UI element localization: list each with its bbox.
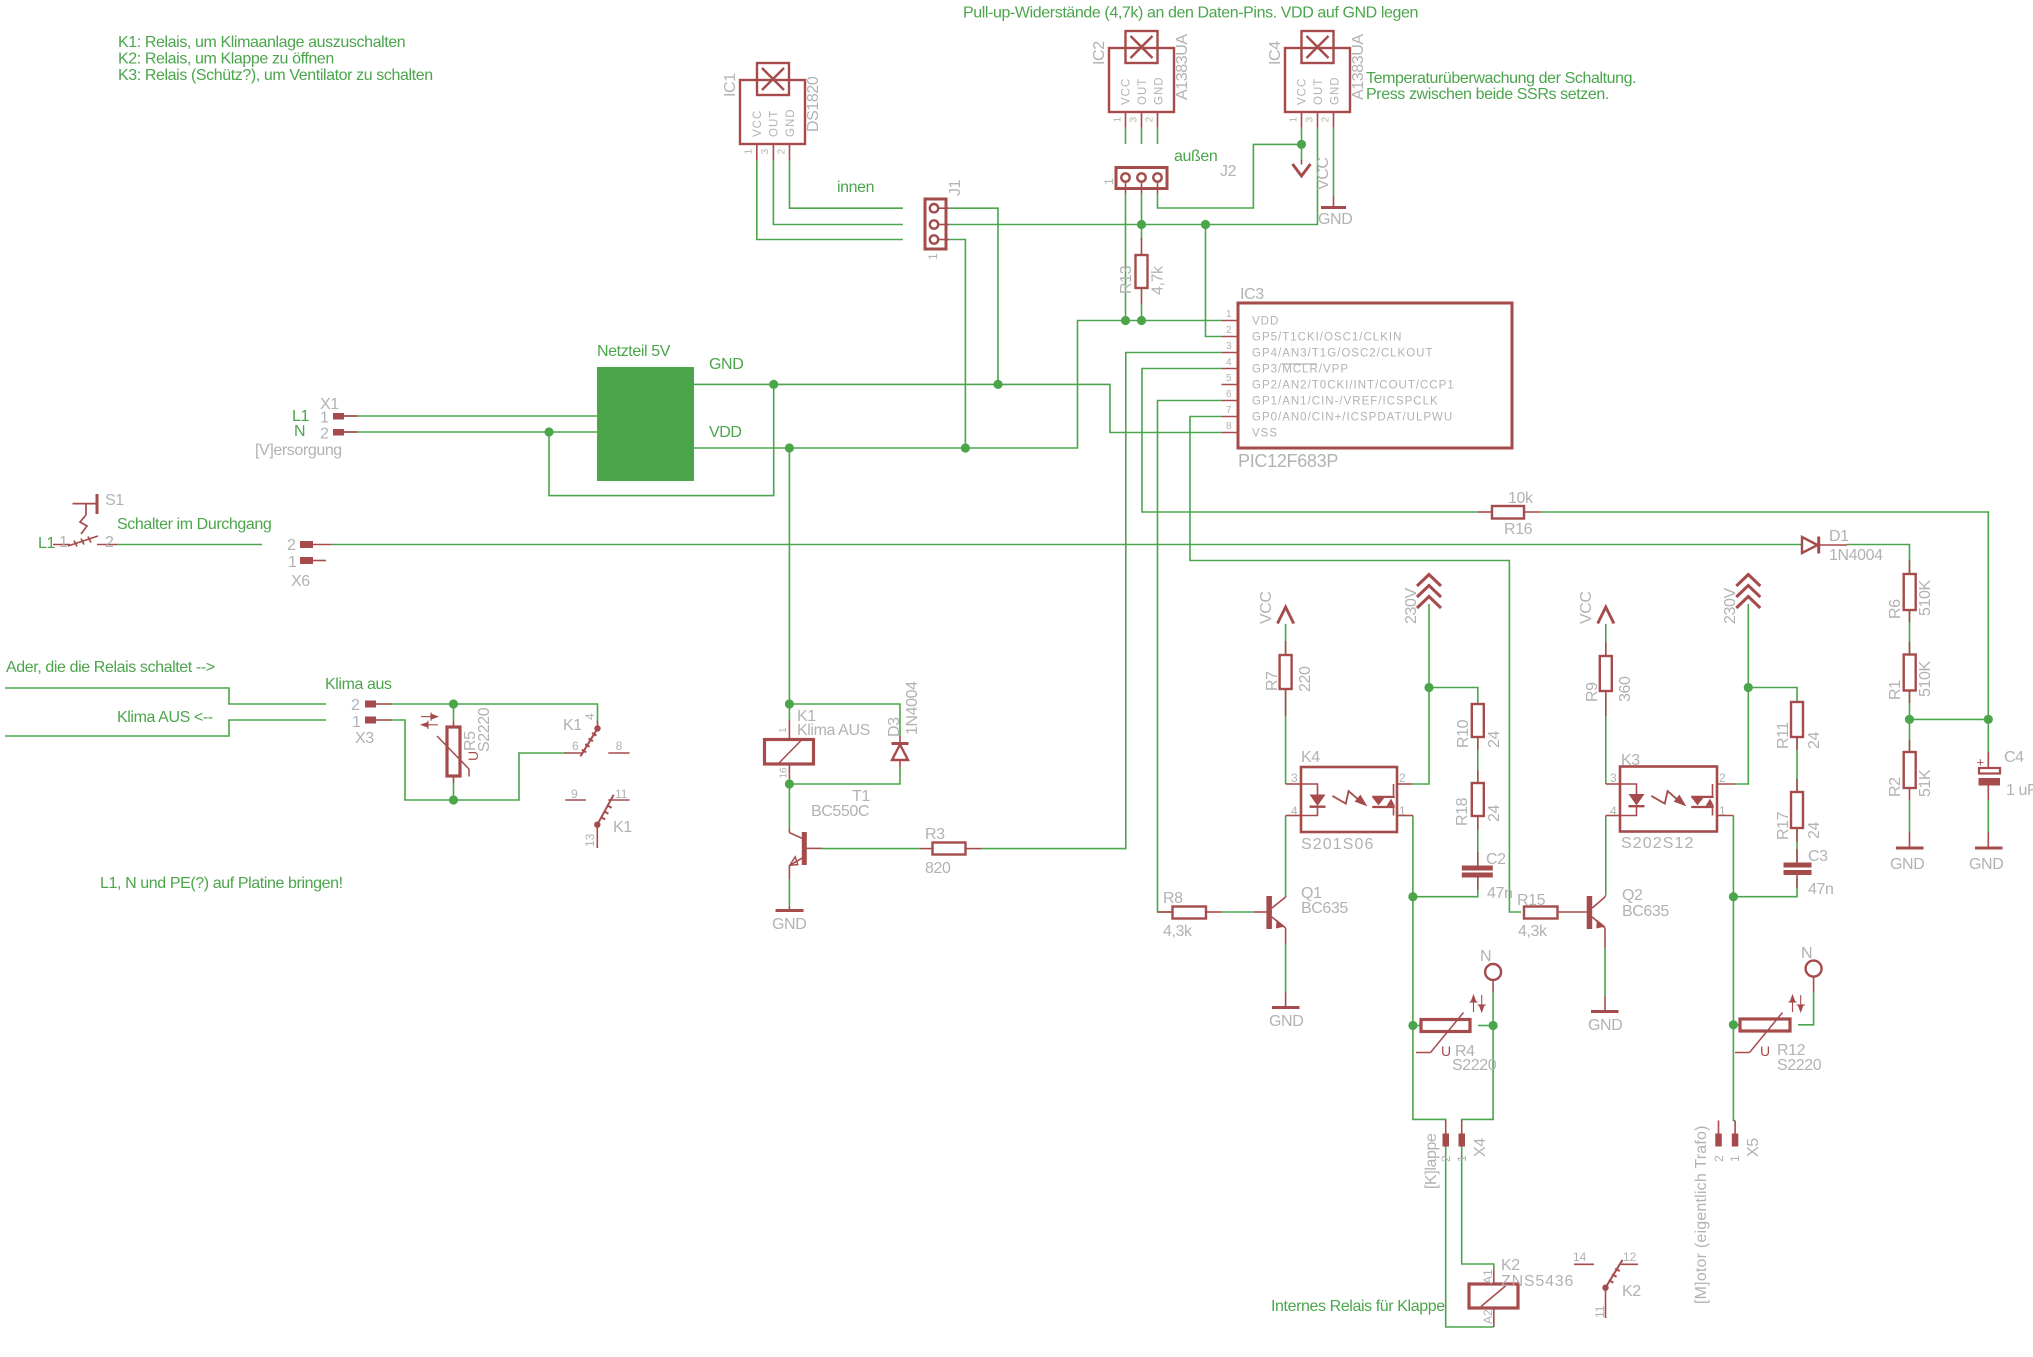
svg-text:VSS: VSS xyxy=(1252,428,1278,440)
varistor R4 S2220 xyxy=(1416,995,1497,1074)
wire 230V junction to R10 xyxy=(1429,688,1478,705)
svg-text:1: 1 xyxy=(1226,309,1232,320)
svg-text:R1: R1 xyxy=(1887,680,1904,700)
svg-text:8: 8 xyxy=(616,739,623,753)
svg-text:D1: D1 xyxy=(1829,528,1849,545)
ground symbol at C4 xyxy=(1969,832,2003,873)
svg-text:VDD: VDD xyxy=(1252,316,1279,328)
text label VDD output xyxy=(709,424,742,441)
text label GND output xyxy=(709,356,743,373)
svg-text:OUT: OUT xyxy=(1137,78,1149,105)
junction DATA row at GP5 xyxy=(1201,220,1210,229)
junction N at X1 xyxy=(544,427,553,436)
svg-text:3: 3 xyxy=(760,149,771,155)
svg-text:2: 2 xyxy=(105,534,114,551)
text pin 1 at S1 xyxy=(59,534,68,551)
svg-text:GND: GND xyxy=(1969,856,2003,873)
wire divider junction row xyxy=(1910,718,1989,720)
svg-text:2: 2 xyxy=(777,149,788,155)
svg-text:3: 3 xyxy=(1291,771,1298,785)
diode D3 1N4004 xyxy=(886,681,921,767)
resistor R16 10k xyxy=(1478,490,1541,538)
wire K4 pin1 down to X4 pin2 xyxy=(1413,816,1446,1122)
wire IC1 VCC pin1 to J1 bottom xyxy=(757,161,903,240)
text note temperature monitoring xyxy=(1366,70,1636,103)
svg-text:7: 7 xyxy=(1226,405,1232,416)
wire R4 junction down to X4 pin1 xyxy=(1462,1026,1493,1122)
svg-text:6: 6 xyxy=(1226,389,1232,400)
svg-text:2: 2 xyxy=(287,537,296,554)
sensor IC1 DS1820 xyxy=(722,63,822,161)
svg-text:VCC: VCC xyxy=(1315,157,1332,190)
wire C3 bottom to K3 pin1 net xyxy=(1733,878,1797,897)
svg-text:R8: R8 xyxy=(1163,890,1183,907)
wire R5 bottom lead xyxy=(453,783,455,800)
wire IC4 pin2 to GND symbol xyxy=(1333,128,1335,197)
svg-text:1: 1 xyxy=(1399,804,1406,818)
svg-text:360: 360 xyxy=(1617,676,1634,702)
wire R7 to K4 pin3 xyxy=(1285,690,1287,784)
wire R10 to R18 xyxy=(1477,737,1479,783)
text note Ader die die Relais schaltet xyxy=(6,659,215,676)
svg-text:GND: GND xyxy=(709,356,743,373)
svg-text:1: 1 xyxy=(1455,1155,1469,1162)
svg-text:ZNS5436: ZNS5436 xyxy=(1501,1273,1574,1290)
wire Ader bus lower xyxy=(5,720,326,736)
resistor R10 24 xyxy=(1455,704,1503,750)
wire IC2 pin1 stub xyxy=(1125,128,1127,145)
junction GND at J1 xyxy=(993,380,1002,389)
ground symbol at R2 xyxy=(1890,832,1924,873)
wire 230V arrow to K3 pin2 xyxy=(1735,604,1748,784)
svg-text:47n: 47n xyxy=(1487,885,1513,902)
svg-text:K2: K2 xyxy=(1622,1283,1641,1300)
wire IC1 OUT pin3 to J1 middle xyxy=(773,161,903,225)
svg-text:VDD: VDD xyxy=(709,424,742,441)
wire X3 pin1 to K1 contact pin6 xyxy=(392,720,566,800)
svg-text:N: N xyxy=(294,423,305,440)
text note pull-up resistors xyxy=(963,5,1418,22)
svg-text:Internes Relais für Klappe: Internes Relais für Klappe xyxy=(1271,1298,1445,1315)
svg-text:K3: K3 xyxy=(1621,752,1640,769)
diode D1 1N4004 xyxy=(1802,528,1883,564)
connector X1 xyxy=(255,396,357,459)
resistor R6 510K xyxy=(1887,560,1934,622)
junction divider at R2 xyxy=(1905,715,1914,724)
svg-text:[M]otor (eigentlich Trafo): [M]otor (eigentlich Trafo) xyxy=(1693,1125,1710,1304)
svg-text:GP3/MCLR/VPP: GP3/MCLR/VPP xyxy=(1252,364,1349,376)
svg-text:GND: GND xyxy=(772,916,806,933)
svg-text:24: 24 xyxy=(1486,731,1503,748)
text label Klima aus xyxy=(325,676,392,693)
junction 230V at R11 xyxy=(1744,683,1753,692)
svg-text:R11: R11 xyxy=(1775,722,1792,749)
svg-text:1 uF: 1 uF xyxy=(2006,782,2033,799)
wire J2 pin1 to VDD row xyxy=(1125,194,1127,321)
svg-text:3: 3 xyxy=(1304,117,1315,123)
svg-text:47n: 47n xyxy=(1808,881,1834,898)
svg-text:X5: X5 xyxy=(1745,1138,1762,1157)
resistor R8 4.3k xyxy=(1158,890,1222,940)
junction K4 pin1 at C2 xyxy=(1408,892,1417,901)
svg-text:[V]ersorgung: [V]ersorgung xyxy=(255,442,342,459)
svg-text:820: 820 xyxy=(925,860,951,877)
svg-text:R10: R10 xyxy=(1455,719,1472,748)
wire Q1 emitter to GND xyxy=(1285,944,1287,992)
wire R16 right to divider junction xyxy=(1541,512,1989,719)
svg-text:J2: J2 xyxy=(1220,163,1237,180)
wire VCC arrow to R9 xyxy=(1605,624,1607,656)
svg-text:2: 2 xyxy=(1320,117,1331,123)
svg-text:S2220: S2220 xyxy=(1777,1057,1822,1074)
connector X4 xyxy=(1423,1120,1489,1189)
svg-text:R17: R17 xyxy=(1775,811,1792,840)
wire IC2 pin3 stub xyxy=(1141,128,1143,145)
svg-text:A1: A1 xyxy=(1481,1269,1495,1284)
wire PIC pin6 GP1 to R8 xyxy=(1158,401,1222,913)
svg-text:2: 2 xyxy=(320,426,329,443)
wire PIC pin4 GP3 to R16 xyxy=(1142,369,1478,513)
connector X6 xyxy=(287,537,331,590)
resistor R2 51K xyxy=(1887,740,1934,800)
svg-text:8: 8 xyxy=(1226,421,1232,432)
svg-text:C2: C2 xyxy=(1486,851,1506,868)
vcc arrow at R7 xyxy=(1258,591,1294,624)
wire junction to R2 xyxy=(1909,719,1911,752)
svg-text:Q2: Q2 xyxy=(1622,887,1643,904)
wire PIC pin3 GP4 to R3 xyxy=(981,353,1222,849)
wire X4 pin1 to K2 coil A1 xyxy=(1462,1146,1494,1270)
svg-text:GND: GND xyxy=(1269,1013,1303,1030)
resistor R11 24 xyxy=(1775,702,1823,750)
capacitor C3 47n xyxy=(1784,848,1834,898)
svg-text:12: 12 xyxy=(1623,1250,1637,1264)
resistor R9 360 xyxy=(1584,642,1634,716)
ground symbol at Q2 xyxy=(1588,996,1622,1034)
svg-text:1: 1 xyxy=(926,253,940,260)
wire Ader bus upper xyxy=(5,688,326,704)
svg-text:1N4004: 1N4004 xyxy=(1829,547,1883,564)
svg-text:2: 2 xyxy=(1712,1155,1726,1162)
wire R4 right junction to N xyxy=(1492,992,1494,1026)
wire D3 bottom to K1 coil pin16 row xyxy=(789,767,900,784)
svg-text:16: 16 xyxy=(779,767,790,779)
wire R18 to C2 xyxy=(1477,816,1479,866)
svg-text:24: 24 xyxy=(1486,805,1503,822)
transistor Q1 BC635 xyxy=(1254,885,1348,944)
wire GND row from Netzteil to PIC VSS xyxy=(694,384,1222,432)
wire T1 base to R3 xyxy=(822,848,920,850)
connector X3 xyxy=(351,697,392,747)
svg-text:+: + xyxy=(1977,755,1985,770)
wire X1 pin2 N to Netzteil xyxy=(344,431,597,433)
svg-text:IC3: IC3 xyxy=(1240,286,1264,303)
wire R11 to R17 xyxy=(1796,737,1798,792)
svg-text:VCC: VCC xyxy=(1578,591,1595,624)
resistor R7 220 xyxy=(1264,641,1314,716)
wire R12 left lead xyxy=(1733,1024,1740,1026)
svg-text:9: 9 xyxy=(571,787,578,801)
svg-text:1: 1 xyxy=(352,714,361,731)
text note Internes Relais fuer Klappe xyxy=(1271,1298,1445,1315)
svg-text:R7: R7 xyxy=(1264,671,1281,691)
ground symbol at IC4 xyxy=(1318,196,1352,228)
wire K3 pin1 down to X5 pin1 xyxy=(1733,816,1735,1121)
wire junction to C4 xyxy=(1987,719,1989,764)
supply symbol N right xyxy=(1801,945,1822,992)
vcc arrow at R9 xyxy=(1578,591,1614,624)
svg-text:1: 1 xyxy=(288,554,297,571)
wire R1 to junction xyxy=(1909,691,1911,719)
wire X4 pin2 to K2 coil A2 xyxy=(1446,1146,1494,1327)
svg-text:GND: GND xyxy=(1330,76,1342,105)
svg-text:S2220: S2220 xyxy=(1452,1057,1497,1074)
svg-text:4: 4 xyxy=(583,713,597,720)
junction VDD row at J2 pin1 xyxy=(1121,316,1130,325)
svg-text:4: 4 xyxy=(1610,804,1617,818)
svg-text:Klima AUS: Klima AUS xyxy=(797,722,870,739)
svg-text:N: N xyxy=(1480,948,1491,965)
svg-text:13: 13 xyxy=(583,833,597,847)
svg-text:K1: K1 xyxy=(613,819,632,836)
svg-text:VCC: VCC xyxy=(1258,591,1275,624)
junction VDD row at R13 xyxy=(1137,316,1146,325)
vcc arrow at IC4 xyxy=(1293,157,1333,190)
svg-text:1: 1 xyxy=(744,149,755,155)
junction divider at C4 xyxy=(1984,715,1993,724)
svg-text:D3: D3 xyxy=(886,717,903,737)
svg-text:1N4004: 1N4004 xyxy=(904,681,921,735)
svg-text:PIC12F683P: PIC12F683P xyxy=(1238,451,1338,471)
svg-text:14: 14 xyxy=(1573,1250,1587,1264)
resistor R1 510K xyxy=(1887,642,1934,703)
svg-text:2: 2 xyxy=(1399,771,1406,785)
text label N at X1 xyxy=(294,423,305,440)
svg-text:IC2: IC2 xyxy=(1091,41,1108,65)
wire X1 pin1 L1 to Netzteil xyxy=(344,415,597,417)
wire R6 to R1 xyxy=(1909,610,1911,655)
junction IC4 VCC xyxy=(1297,140,1306,149)
junction DATA row at J2 pin3 xyxy=(1137,220,1146,229)
svg-text:R13: R13 xyxy=(1118,265,1135,294)
svg-text:11: 11 xyxy=(615,787,628,801)
optocoupler K3 S202S12 xyxy=(1606,752,1735,852)
svg-text:GP0/AN0/CIN+/ICSPDAT/ULPWU: GP0/AN0/CIN+/ICSPDAT/ULPWU xyxy=(1252,412,1453,424)
varistor R5 S2220 xyxy=(421,707,493,783)
junction R5 bottom xyxy=(449,795,458,804)
svg-text:3: 3 xyxy=(1128,117,1139,123)
relay coil K2 ZNS5436 xyxy=(1469,1257,1574,1327)
resistor R18 24 xyxy=(1454,770,1503,830)
wire PIC pin7 GP0 to R15 xyxy=(1190,417,1521,913)
ground symbol at Q1 xyxy=(1269,992,1303,1030)
svg-text:IC1: IC1 xyxy=(722,73,739,97)
svg-text:[K]lappe: [K]lappe xyxy=(1423,1133,1440,1189)
svg-text:4,7k: 4,7k xyxy=(1150,265,1167,295)
svg-text:BC635: BC635 xyxy=(1622,903,1669,920)
svg-text:S201S06: S201S06 xyxy=(1301,836,1375,853)
text note Klima AUS arrow xyxy=(117,709,213,726)
wire T1 emitter to GND xyxy=(788,879,790,906)
junction 230V at R10 xyxy=(1424,683,1433,692)
svg-text:1: 1 xyxy=(1288,117,1299,123)
svg-text:Pull-up-Widerstände (4,7k) an: Pull-up-Widerstände (4,7k) an den Daten-… xyxy=(963,5,1418,22)
text note L1 N und PE auf Platine bringen xyxy=(100,875,343,892)
svg-text:2: 2 xyxy=(1719,771,1726,785)
svg-text:A1383UA: A1383UA xyxy=(1174,34,1191,100)
wire K1 coil pin1 junction to D3 top xyxy=(789,704,900,736)
wire C4 to GND xyxy=(1987,800,1989,832)
svg-text:S1: S1 xyxy=(105,492,124,509)
wire 230V junction to R11 xyxy=(1748,688,1797,703)
wire IC4 pin1 to VCC arrow xyxy=(1301,128,1303,162)
svg-text:Schalter im Durchgang: Schalter im Durchgang xyxy=(117,516,271,533)
svg-text:L1: L1 xyxy=(38,535,55,552)
svg-text:GND: GND xyxy=(1588,1017,1622,1034)
sensor IC4 A1383UA xyxy=(1267,31,1367,128)
wire D1 cathode to R6 xyxy=(1847,545,1910,575)
svg-text:C3: C3 xyxy=(1808,848,1828,865)
junction R12 left xyxy=(1729,1020,1738,1029)
wire IC1 GND pin2 to J1 top xyxy=(790,161,903,209)
svg-text:Klima AUS <--: Klima AUS <-- xyxy=(117,709,213,726)
text label innen xyxy=(837,179,874,196)
svg-text:X6: X6 xyxy=(291,573,310,590)
svg-text:OUT: OUT xyxy=(769,110,781,137)
svg-text:Klima aus: Klima aus xyxy=(325,676,392,693)
junction R5 top xyxy=(449,699,458,708)
wire J1 top to GND row xyxy=(949,208,998,384)
svg-text:2: 2 xyxy=(1226,325,1232,336)
svg-text:R18: R18 xyxy=(1454,797,1471,826)
wire R9 to K3 pin3 xyxy=(1605,691,1607,784)
text label L1 at X1 xyxy=(292,408,309,425)
svg-text:J1: J1 xyxy=(947,179,964,196)
power supply Netzteil 5V xyxy=(597,367,694,481)
svg-text:Ader, die die Relais schaltet: Ader, die die Relais schaltet --> xyxy=(6,659,215,676)
svg-text:2: 2 xyxy=(1439,1155,1453,1162)
svg-text:3: 3 xyxy=(1226,341,1232,352)
svg-text:R16: R16 xyxy=(1504,521,1533,538)
svg-text:A2: A2 xyxy=(1481,1309,1495,1324)
wire IC2 pin2 stub xyxy=(1157,128,1159,145)
230V arrow at K4 xyxy=(1403,575,1441,625)
svg-text:1: 1 xyxy=(1728,1155,1742,1162)
wire DATA net J1 middle to IC4 OUT xyxy=(949,128,1317,225)
connector J2 xyxy=(1102,163,1237,194)
svg-text:BC635: BC635 xyxy=(1301,900,1348,917)
connector J1 xyxy=(925,179,964,260)
wire S1 pin2 stub net xyxy=(117,544,262,546)
svg-text:Press zwischen beide SSRs setz: Press zwischen beide SSRs setzen. xyxy=(1366,86,1609,103)
optocoupler K4 S201S06 xyxy=(1286,749,1413,853)
svg-text:230V: 230V xyxy=(1403,588,1420,624)
transistor Q2 BC635 xyxy=(1587,887,1670,948)
wire X3 pin2 to K1 contact pin4 xyxy=(392,704,598,722)
capacitor C4 1uF polarized xyxy=(1977,749,2033,800)
text pin 2 at S1 xyxy=(105,534,114,551)
svg-text:24: 24 xyxy=(1806,732,1823,749)
wire R4 left lead xyxy=(1413,1025,1421,1027)
relay contact K2 xyxy=(1573,1250,1641,1318)
svg-text:1: 1 xyxy=(1112,117,1123,123)
svg-text:S202S12: S202S12 xyxy=(1621,835,1695,852)
transistor T1 BC550C xyxy=(789,788,870,879)
svg-text:510K: 510K xyxy=(1917,661,1934,697)
svg-text:GP5/T1CKI/OSC1/CLKIN: GP5/T1CKI/OSC1/CLKIN xyxy=(1252,332,1402,344)
wire R2 to GND xyxy=(1909,800,1911,832)
relay contact K1 lower spare xyxy=(565,787,632,848)
wire K4 pin4 to Q1 collector xyxy=(1285,816,1287,897)
wire J2 pin2 to IC4 pin1 net xyxy=(1158,144,1302,208)
svg-text:U: U xyxy=(1760,1043,1770,1059)
svg-text:6: 6 xyxy=(572,739,579,753)
svg-text:BC550C: BC550C xyxy=(811,803,869,820)
svg-text:A1383UA: A1383UA xyxy=(1350,34,1367,100)
wire R17 to C3 xyxy=(1796,828,1798,862)
svg-text:S2220: S2220 xyxy=(476,707,493,752)
svg-text:GP1/AN1/CIN-/VREF/ICSPCLK: GP1/AN1/CIN-/VREF/ICSPCLK xyxy=(1252,396,1439,408)
relay contact K1 upper xyxy=(563,713,630,756)
text note K1 K2 K3 explanation xyxy=(118,34,433,84)
svg-text:1: 1 xyxy=(1102,178,1116,185)
svg-text:510K: 510K xyxy=(1917,580,1934,616)
svg-text:220: 220 xyxy=(1297,666,1314,692)
230V arrow at K3 xyxy=(1722,575,1760,625)
varistor R12 S2220 xyxy=(1735,995,1822,1074)
svg-text:GND: GND xyxy=(1318,211,1352,228)
wire PIC pin2 GP5 to DATA row xyxy=(1206,225,1222,337)
svg-text:4,3k: 4,3k xyxy=(1518,923,1548,940)
text label Netzteil 5V xyxy=(597,343,671,360)
resistor R15 4.3k xyxy=(1517,892,1587,940)
svg-text:GND: GND xyxy=(1890,856,1924,873)
text note Schalter im Durchgang xyxy=(117,516,271,533)
svg-text:L1, N und PE(?) auf Platine br: L1, N und PE(?) auf Platine bringen! xyxy=(100,875,343,892)
svg-text:U: U xyxy=(1441,1043,1451,1059)
svg-text:K1: K1 xyxy=(563,717,582,734)
svg-text:innen: innen xyxy=(837,179,874,196)
wire 230V arrow to K4 pin2 xyxy=(1413,604,1430,784)
svg-text:R2: R2 xyxy=(1887,777,1904,797)
wire K1 coil to T1 collector xyxy=(788,784,790,829)
junction K1 coil bottom xyxy=(785,779,794,788)
svg-text:10k: 10k xyxy=(1508,490,1534,507)
svg-text:1: 1 xyxy=(1719,804,1726,818)
resistor R17 24 xyxy=(1775,779,1823,842)
svg-text:IC4: IC4 xyxy=(1267,41,1284,65)
svg-text:2: 2 xyxy=(1144,117,1155,123)
svg-text:GP2/AN2/T0CKI/INT/COUT/CCP1: GP2/AN2/T0CKI/INT/COUT/CCP1 xyxy=(1252,380,1455,392)
wire K3 pin4 to Q2 collector xyxy=(1605,816,1607,896)
wire R4 right lead xyxy=(1478,1025,1493,1027)
supply symbol N left xyxy=(1480,948,1501,992)
svg-text:Temperaturüberwachung der Scha: Temperaturüberwachung der Schaltung. xyxy=(1366,70,1636,87)
svg-text:N: N xyxy=(1801,945,1812,962)
wire VCC arrow to R7 xyxy=(1285,624,1287,655)
wire J1 bottom to VDD row xyxy=(949,240,965,449)
svg-text:K1: Relais, um Klimaanlage aus: K1: Relais, um Klimaanlage auszuschalten xyxy=(118,34,405,51)
svg-text:1: 1 xyxy=(59,534,68,551)
wire N loop to GND junction xyxy=(549,384,774,495)
junction GND at Netzteil loop xyxy=(769,380,778,389)
svg-text:5: 5 xyxy=(1226,373,1232,384)
svg-text:OUT: OUT xyxy=(1313,78,1325,105)
wire C2 bottom to K4 pin1 net xyxy=(1413,878,1478,897)
svg-text:außen: außen xyxy=(1174,148,1217,165)
svg-text:Netzteil 5V: Netzteil 5V xyxy=(597,343,671,360)
junction K1 coil top xyxy=(785,699,794,708)
